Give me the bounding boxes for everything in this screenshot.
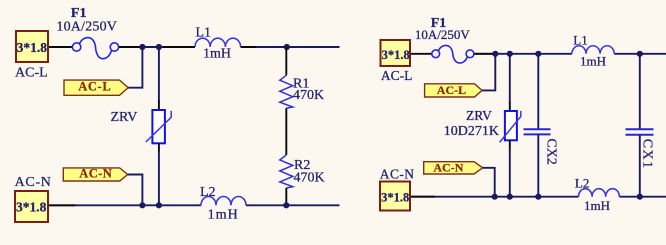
port 3*1.8 (right AC-N side)	[380, 182, 410, 211]
inductor L2	[201, 196, 246, 205]
svg-text:AC-N: AC-N	[433, 160, 463, 174]
svg-text:3*1.8: 3*1.8	[16, 200, 47, 215]
svg-text:10D271K: 10D271K	[444, 124, 499, 139]
port 3*1.8 (AC-N side)	[15, 191, 48, 222]
svg-text:AC-L: AC-L	[15, 66, 48, 81]
capacitor CX2	[524, 54, 551, 197]
junction (right top CX1)	[637, 51, 643, 57]
junction (right bottom CX2)	[535, 194, 541, 200]
svg-text:3*1.8: 3*1.8	[382, 48, 410, 62]
wire: ZRV branch bottom	[158, 143, 160, 152]
junction (right top 2)	[507, 51, 513, 57]
resistor R2	[280, 155, 293, 188]
port 3*1.8 (AC-L side)	[16, 31, 48, 62]
junction (left top 1)	[139, 44, 145, 50]
inductor L2 (right)	[579, 189, 620, 197]
fuse F1	[72, 38, 118, 59]
svg-text:AC-N: AC-N	[15, 175, 52, 190]
wire: right ZRV branch bottom	[509, 140, 511, 149]
wire: R1 to R2	[285, 108, 287, 155]
svg-text:AC-L: AC-L	[437, 83, 466, 97]
svg-text:1mH: 1mH	[580, 53, 606, 68]
junction (right bottom CX1)	[637, 194, 643, 200]
junction (left bottom 1)	[139, 202, 145, 208]
svg-text:470K: 470K	[293, 88, 324, 103]
power flag AC-N (right)	[424, 160, 483, 174]
svg-text:CX2: CX2	[544, 138, 559, 164]
svg-text:10A/250V: 10A/250V	[415, 27, 471, 42]
wire: AC-N flag to bottom rail	[128, 175, 143, 206]
varistor ZRV (right)	[500, 111, 521, 142]
junction (left bottom R branch)	[283, 202, 289, 208]
junction (right top 1)	[492, 51, 498, 57]
inductor L1 (right)	[572, 46, 614, 54]
power flag AC-L (right)	[425, 83, 482, 97]
svg-text:L1: L1	[573, 32, 587, 47]
svg-text:CX1: CX1	[639, 139, 654, 170]
wire: ZRV branch top	[158, 47, 160, 101]
wire: right AC-N flag to bottom rail	[483, 168, 495, 197]
inductor L1	[195, 38, 241, 47]
svg-text:ZRV: ZRV	[111, 110, 138, 125]
wire: left top rail	[48, 46, 340, 48]
resistor R1	[280, 75, 293, 108]
junction (right bottom 1)	[492, 194, 498, 200]
wire: right ZRV branch top	[509, 54, 511, 103]
wire: AC-L flag to top rail	[128, 47, 142, 88]
svg-text:L2: L2	[575, 175, 589, 190]
junction (right bottom 2)	[507, 194, 513, 200]
junction (left bottom 2)	[156, 202, 162, 208]
wire: left bottom rail	[48, 204, 340, 206]
junction (right top CX2)	[535, 51, 541, 57]
junction (left top R branch)	[284, 44, 290, 50]
port 3*1.8 (right AC-L side)	[381, 40, 411, 66]
svg-text:L1: L1	[196, 26, 212, 41]
svg-text:1mH: 1mH	[584, 198, 610, 213]
svg-text:470K: 470K	[294, 171, 325, 186]
svg-text:AC-L: AC-L	[381, 68, 413, 83]
capacitor CX1	[626, 54, 654, 197]
svg-text:AC-N: AC-N	[380, 167, 415, 182]
svg-text:1mH: 1mH	[203, 47, 231, 62]
svg-text:3*1.8: 3*1.8	[381, 191, 409, 205]
fuse F1 (right)	[432, 45, 474, 63]
power flag AC-N	[63, 167, 127, 182]
wire: rail to R1	[285, 47, 287, 75]
svg-text:3*1.8: 3*1.8	[17, 40, 48, 55]
svg-text:ZRV: ZRV	[466, 108, 492, 123]
svg-text:AC-L: AC-L	[78, 80, 111, 94]
wire: right AC-L flag to top rail	[482, 54, 495, 91]
svg-text:L2: L2	[200, 185, 216, 200]
power flag AC-L	[64, 80, 128, 96]
junction (left top 2)	[156, 44, 162, 50]
varistor ZRV	[146, 110, 171, 143]
svg-text:10A/250V: 10A/250V	[56, 19, 117, 34]
svg-text:AC-N: AC-N	[79, 167, 112, 181]
wire: right bottom rail	[410, 196, 666, 198]
svg-text:1mH: 1mH	[208, 208, 239, 223]
wire: R2 to bottom rail	[285, 188, 287, 205]
wire: right top rail	[409, 53, 666, 55]
